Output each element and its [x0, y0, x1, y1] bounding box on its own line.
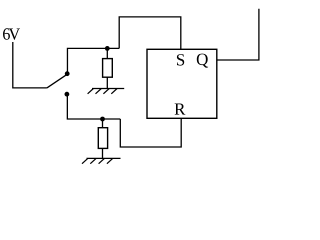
ground G1 [88, 89, 125, 94]
pin label R [175, 104, 186, 115]
resistor R1 [103, 59, 113, 78]
wire from upper contact up to node A [67, 48, 119, 76]
pin label S [177, 54, 184, 66]
resistor R2 top lead [102, 119, 104, 128]
node B junction dot [100, 117, 105, 122]
wire from lower contact down and right [67, 96, 120, 119]
wire to R input [120, 118, 181, 147]
resistor R2 bottom lead [102, 148, 104, 158]
ground G2 [82, 158, 121, 163]
wire riser to S input [119, 17, 181, 49]
resistor R2 [98, 128, 107, 149]
switch lower contact node [65, 92, 70, 97]
wire from 6V down and right to switch pole [13, 42, 47, 88]
switch SW1 lever [47, 75, 66, 88]
SR latch U1 box [147, 49, 217, 118]
switch upper contact node [65, 71, 70, 76]
pin label Q [197, 54, 208, 68]
resistor R1 bottom lead [106, 77, 108, 88]
wire from Q output up [217, 9, 259, 60]
node A junction dot [105, 46, 110, 51]
resistor R1 top lead [106, 48, 108, 58]
battery label 6V [3, 28, 20, 40]
